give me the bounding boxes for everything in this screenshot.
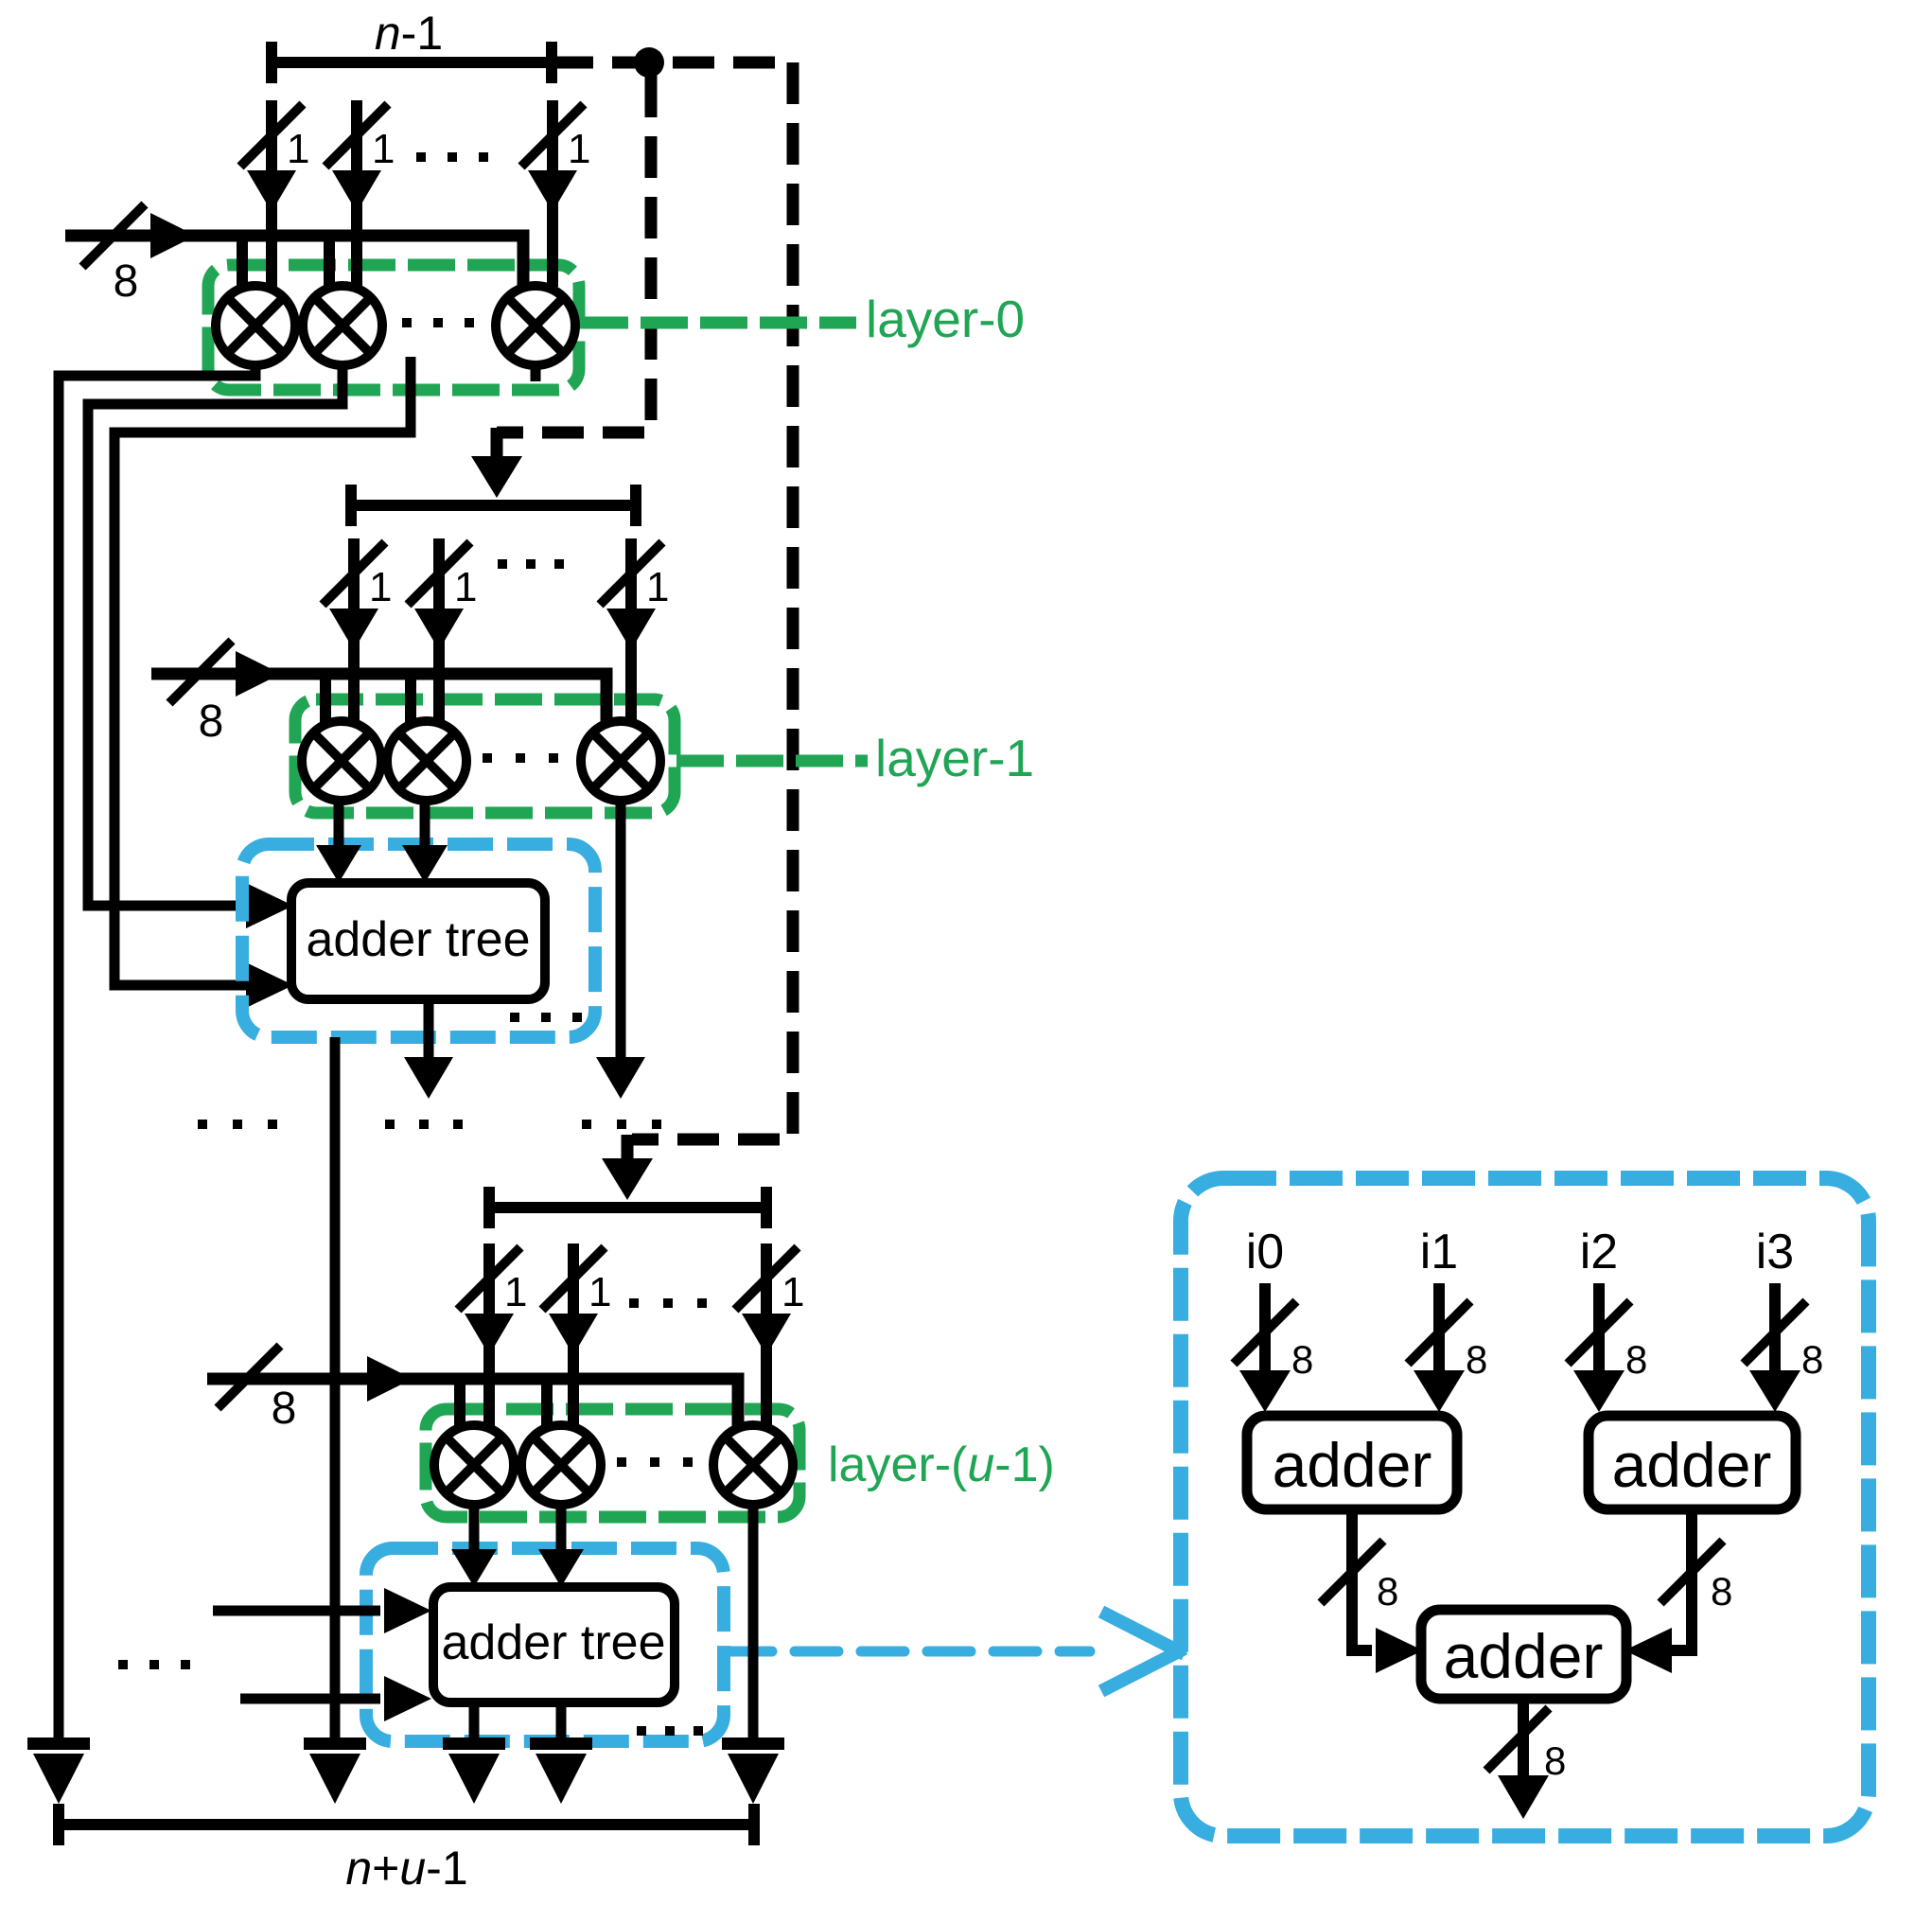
svg-text:8: 8 (1291, 1337, 1313, 1382)
wire: 1-bit input column 3 (layer-(u-1)) (761, 1244, 772, 1426)
multiplier circle 3 (layer-(u-1)) (713, 1425, 793, 1505)
wire: bus tap to multiplier 2 (layer-(u-1)) (541, 1385, 553, 1428)
svg-text:8: 8 (199, 697, 224, 747)
wire: layer-1 block LSB output rail to bottom (330, 1037, 341, 1737)
wire: bus tap to multiplier 2 (layer-1) (405, 679, 416, 724)
svg-text:i3: i3 (1756, 1225, 1794, 1279)
wire: 1-bit input column 2 (layer-1) (433, 538, 445, 722)
dots row between stages group 3 (582, 1120, 591, 1129)
wire: layer-0 8-bit input bus (65, 236, 523, 291)
svg-text:i2: i2 (1580, 1225, 1618, 1279)
wire: dashed branch from junction down into layer-1 entry (497, 76, 651, 432)
wire: layer-1 rail bottom arrow (304, 1737, 366, 1750)
wire: multiplier1 (layer-1) output into adder tree (334, 801, 344, 847)
wire: adder tree (layer-1) output arrow (424, 999, 434, 1060)
multiplier circle 1 (layer-1) (302, 721, 381, 801)
dots row between stages group 1 (198, 1120, 207, 1129)
adder tree box (layer-1) (291, 883, 545, 999)
blue box adder tree detail (1181, 1178, 1869, 1836)
svg-text:layer-1: layer-1 (875, 729, 1034, 787)
wire: input i1 arrow with slash (1433, 1283, 1445, 1382)
wire: layer-1 8-bit input bus (151, 674, 606, 725)
blue box around adder tree (layer-1) (242, 844, 595, 1037)
svg-text:8: 8 (1377, 1569, 1398, 1614)
wire: multiplier3 (layer-(u-1)) output (748, 1505, 759, 1737)
svg-text:layer-0: layer-0 (866, 290, 1025, 348)
wire: U2 output to U3 with slash (1672, 1509, 1692, 1650)
wire: bottom adder tree output 1 (469, 1702, 480, 1737)
wire: 1-bit input column 1 (layer-(u-1)) (483, 1244, 495, 1426)
wire: blue dashed callout from bottom adder tree (729, 1647, 1090, 1657)
multiplier circle 3 (layer-1) (581, 721, 660, 801)
wire: input i3 arrow with slash (1769, 1283, 1781, 1382)
wire: 1-bit input column 1 (layer-1) (348, 538, 360, 722)
multiplier circle 2 (layer-(u-1)) (521, 1425, 601, 1505)
svg-text:8: 8 (1544, 1738, 1566, 1783)
dots between layer-0 input columns (416, 152, 426, 162)
svg-text:n-1: n-1 (375, 7, 443, 60)
wire: multiplier3 (layer-0) output stub (531, 365, 541, 381)
dots left of bottom adder tree inputs (118, 1660, 128, 1669)
node: junction dot on dashed net (634, 47, 664, 78)
wire: multiplier1 output to leftmost rail (59, 365, 255, 1737)
dimension line n+u-1 (59, 1819, 754, 1830)
multiplier circle 1 (layer-(u-1)) (434, 1425, 514, 1505)
green box layer-(u-1) (426, 1409, 799, 1517)
wire: layer-1 entry arrow (491, 428, 503, 456)
wire: U1 output to U3 with slash (1352, 1509, 1372, 1650)
wire: U3 output arrow with slash (1518, 1699, 1529, 1781)
svg-text:1: 1 (369, 564, 392, 610)
blue callout chevron arrow (1101, 1612, 1185, 1654)
dimension line layer-(u-1) (489, 1202, 766, 1213)
wire: multiplier2 (layer-1) output into adder tree (420, 801, 430, 847)
wire: bus tap to multiplier 1 (layer-(u-1)) (454, 1385, 465, 1428)
svg-text:adder tree: adder tree (441, 1615, 665, 1670)
svg-text:8: 8 (1625, 1337, 1647, 1382)
wire: carried input 1 into bottom adder tree (213, 1606, 380, 1616)
dots between layer-0 multipliers (402, 318, 412, 327)
wire: multiplier3 (layer-1) output arrow (616, 801, 626, 1060)
wire: multiplier1 output into bottom adder tree (469, 1505, 480, 1551)
wire: bottom adder tree output 2 (556, 1702, 567, 1737)
svg-text:i0: i0 (1246, 1225, 1284, 1279)
wire: multiplier2 output into bottom adder tree (556, 1505, 567, 1551)
svg-text:1: 1 (588, 1269, 611, 1315)
multiplier circle 1 (layer-0) (216, 286, 295, 365)
green box layer-1 (295, 699, 675, 813)
svg-text:n+u-1: n+u-1 (345, 1842, 467, 1895)
wire: layer-1 callout dashed green (676, 755, 868, 767)
wire: 1-bit input column 2 (layer-(u-1)) (568, 1244, 579, 1426)
multiplier circle 2 (layer-1) (387, 721, 466, 801)
wire: multiplier2 output to adder-tree input 1 (88, 365, 342, 906)
dots row between stages group 2 (385, 1120, 395, 1129)
svg-text:adder: adder (1612, 1430, 1772, 1500)
svg-text:1: 1 (568, 126, 590, 172)
wire: layer-(u-1) 8-bit input bus (207, 1379, 738, 1429)
wire: hidden multiplier outputs to adder-tree input 2 (114, 357, 411, 985)
dots between layer-(u-1) input columns (629, 1298, 639, 1308)
adder box U1 (1247, 1416, 1457, 1509)
wire: dashed right rail x=838 down and into layer-(u-1) entry (632, 62, 793, 1139)
adder box U2 (1589, 1416, 1796, 1509)
svg-text:1: 1 (782, 1269, 804, 1315)
wire: bus tap to multiplier 1 (237, 241, 248, 289)
wire: carried input 2 into bottom adder tree (240, 1694, 380, 1704)
wire: dashed net from n-1 line right end to junction and right rail (552, 57, 793, 69)
svg-text:8: 8 (114, 256, 139, 307)
multiplier circle 3 (layer-0) (496, 286, 575, 365)
svg-text:1: 1 (646, 564, 669, 610)
dots inside blue box (layer-1) (510, 1013, 519, 1022)
wire: layer-(u-1) entry arrow (622, 1135, 634, 1161)
svg-text:1: 1 (454, 564, 477, 610)
svg-text:adder: adder (1444, 1621, 1604, 1691)
svg-text:8: 8 (1466, 1337, 1487, 1382)
svg-text:8: 8 (1711, 1569, 1732, 1614)
dots inside bottom blue box (637, 1726, 646, 1736)
wire: layer-0 callout dashed green (581, 317, 856, 329)
wire: bus tap to multiplier 2 (324, 241, 335, 289)
dots between layer-(u-1) multipliers (617, 1457, 626, 1467)
svg-text:adder: adder (1273, 1430, 1432, 1500)
adder tree box (layer-(u-1)) (433, 1587, 675, 1702)
wire: 1-bit input column 3 (layer-1) (625, 538, 637, 722)
svg-text:8: 8 (272, 1384, 297, 1434)
blue box around adder tree (layer-(u-1)) (366, 1548, 724, 1741)
svg-text:i1: i1 (1420, 1225, 1458, 1279)
wire: 1-bit input column 3 (layer-0) (547, 100, 558, 287)
adder box U3 (1421, 1610, 1626, 1699)
multiplier circle 2 (layer-0) (303, 286, 382, 365)
wire: 1-bit input column 1 (layer-0) (266, 100, 277, 287)
wire: bus tap to multiplier 1 (layer-1) (320, 679, 331, 724)
wire: leftmost rail bottom arrow (27, 1737, 90, 1750)
svg-text:adder tree: adder tree (306, 912, 530, 967)
dimension line layer-1 (351, 500, 636, 511)
dots between layer-1 input columns (498, 559, 507, 569)
wire: input i0 arrow with slash (1259, 1283, 1271, 1382)
svg-text:8: 8 (1801, 1337, 1823, 1382)
dimension line n-1 (272, 57, 552, 68)
svg-text:1: 1 (372, 126, 395, 172)
green box layer-0 (208, 265, 579, 390)
wire: input i2 arrow with slash (1593, 1283, 1605, 1382)
dots between layer-1 multipliers (483, 753, 492, 763)
svg-text:layer-(u-1): layer-(u-1) (828, 1438, 1055, 1492)
wire: 1-bit input column 2 (layer-0) (351, 100, 362, 287)
svg-text:1: 1 (287, 126, 309, 172)
svg-text:1: 1 (504, 1269, 527, 1315)
